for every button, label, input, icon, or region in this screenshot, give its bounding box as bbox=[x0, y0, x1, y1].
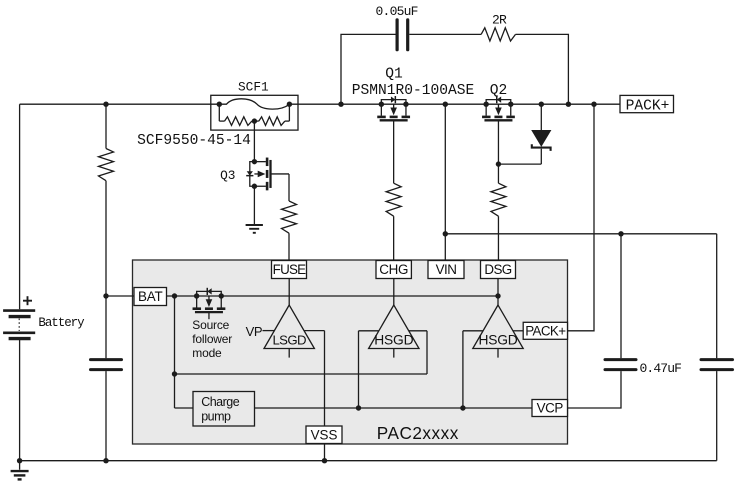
svg-text:BAT: BAT bbox=[138, 289, 162, 304]
svg-text:follower: follower bbox=[192, 332, 232, 346]
svg-text:PSMN1R0-100ASE: PSMN1R0-100ASE bbox=[352, 83, 475, 99]
svg-text:Charge: Charge bbox=[201, 395, 240, 409]
svg-text:HSGD: HSGD bbox=[478, 332, 517, 347]
svg-text:Battery: Battery bbox=[38, 316, 85, 330]
svg-text:PAC2xxxx: PAC2xxxx bbox=[377, 423, 459, 443]
svg-text:SCF9550-45-14: SCF9550-45-14 bbox=[137, 133, 251, 149]
svg-text:HSGD: HSGD bbox=[374, 332, 413, 347]
svg-text:PACK+: PACK+ bbox=[626, 99, 670, 115]
svg-text:2R: 2R bbox=[492, 13, 507, 28]
svg-text:DSG: DSG bbox=[484, 262, 511, 277]
svg-text:CHG: CHG bbox=[379, 262, 408, 277]
svg-text:Q1: Q1 bbox=[385, 67, 403, 83]
svg-text:VP: VP bbox=[246, 324, 262, 339]
svg-text:Q2: Q2 bbox=[490, 83, 508, 99]
svg-text:VCP: VCP bbox=[537, 401, 564, 416]
svg-text:pump: pump bbox=[201, 410, 231, 424]
svg-text:Source: Source bbox=[192, 318, 229, 332]
svg-text:0.47uF: 0.47uF bbox=[640, 361, 682, 376]
svg-text:LSGD: LSGD bbox=[272, 332, 306, 347]
svg-text:0.05uF: 0.05uF bbox=[376, 4, 418, 19]
svg-text:VIN: VIN bbox=[436, 262, 457, 277]
svg-text:PACK+: PACK+ bbox=[525, 324, 566, 339]
svg-text:SCF1: SCF1 bbox=[238, 80, 269, 95]
svg-text:Q3: Q3 bbox=[220, 168, 235, 183]
svg-text:mode: mode bbox=[192, 346, 222, 360]
svg-text:FUSE: FUSE bbox=[273, 262, 307, 277]
svg-text:VSS: VSS bbox=[311, 427, 338, 442]
